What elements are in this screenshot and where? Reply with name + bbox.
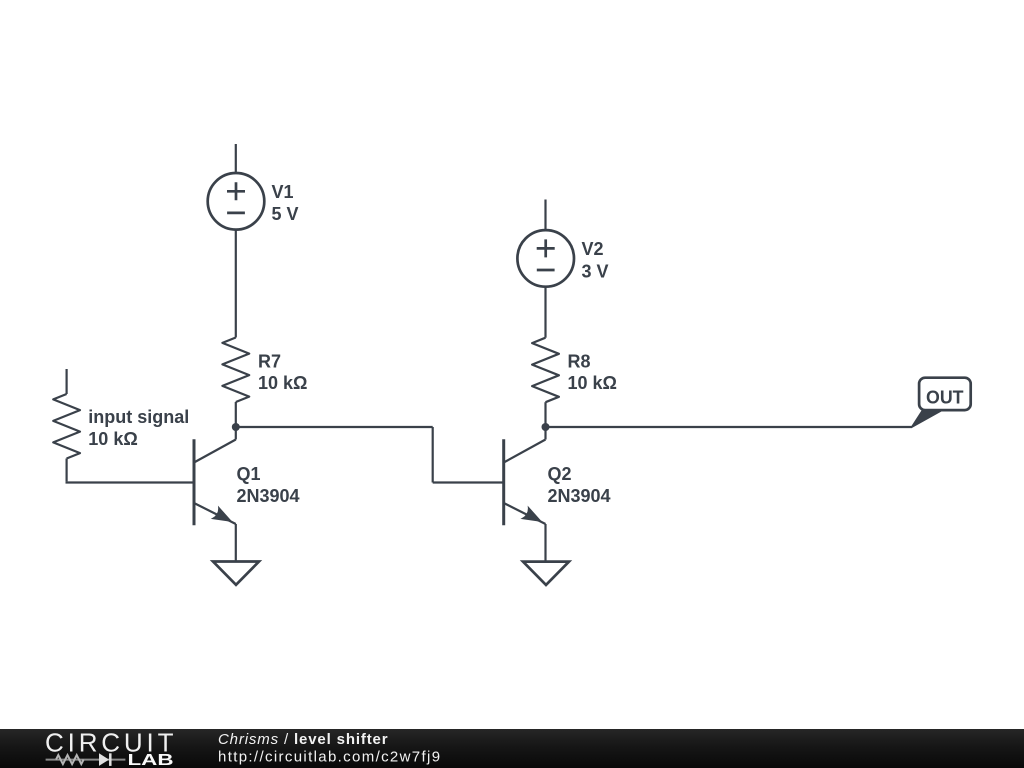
svg-text:http://circuitlab.com/c2w7fj9: http://circuitlab.com/c2w7fj9: [218, 749, 441, 766]
svg-text:5 V: 5 V: [272, 204, 299, 224]
wire to Q2 base: [433, 481, 504, 483]
wire V1 to R7: [235, 230, 237, 338]
svg-text:10 kΩ: 10 kΩ: [568, 373, 617, 393]
resistor R8: [532, 338, 559, 403]
wire to Q1 base: [66, 481, 195, 483]
svg-text:V2: V2: [582, 239, 604, 259]
wire R8 to node B: [544, 402, 546, 427]
ground Q2: [523, 562, 569, 585]
wire Q1 emitter: [235, 524, 237, 562]
svg-text:R8: R8: [568, 352, 591, 372]
resistor input signal: [53, 394, 80, 459]
svg-text:LAB: LAB: [128, 752, 174, 768]
wire Q2 emitter: [544, 524, 546, 562]
svg-text:3 V: 3 V: [582, 261, 609, 281]
node B junction dot: [542, 423, 550, 431]
wire Q2 collector: [544, 427, 546, 440]
net flag OUT box: [919, 378, 971, 410]
resistor R7: [222, 338, 249, 403]
voltage source V2: [517, 230, 574, 287]
wire node B to OUT: [546, 426, 913, 428]
svg-text:Q2: Q2: [548, 464, 572, 484]
wire down segment: [432, 427, 434, 483]
svg-text:OUT: OUT: [926, 387, 964, 407]
net flag OUT tail: [912, 410, 944, 428]
wire V2 to R8: [544, 287, 546, 338]
wire R7 to node A: [235, 402, 237, 427]
svg-text:10 kΩ: 10 kΩ: [88, 429, 137, 449]
svg-text:2N3904: 2N3904: [237, 486, 300, 506]
logo diode: [99, 753, 109, 766]
svg-text:R7: R7: [258, 352, 281, 372]
svg-text:Chrisms / level shifter: Chrisms / level shifter: [218, 731, 388, 748]
wire Q1 collector: [235, 427, 237, 440]
wire V1 top stub: [235, 144, 237, 173]
logo resistor: [56, 755, 84, 764]
wire V2 top stub: [544, 200, 546, 231]
footer bar: [0, 729, 1024, 768]
wire input resistor down: [65, 459, 67, 482]
node A junction dot: [232, 423, 240, 431]
transistor Q1: [194, 439, 236, 525]
wire input stub: [65, 369, 67, 394]
svg-text:Q1: Q1: [237, 464, 261, 484]
wire node A right: [236, 426, 433, 428]
svg-text:input signal: input signal: [88, 407, 189, 427]
transistor Q2: [504, 439, 546, 525]
logo wire: [46, 759, 126, 761]
ground Q1: [213, 562, 259, 585]
svg-text:V1: V1: [272, 182, 294, 202]
svg-text:10 kΩ: 10 kΩ: [258, 373, 307, 393]
svg-text:2N3904: 2N3904: [548, 486, 611, 506]
voltage source V1: [208, 173, 265, 230]
